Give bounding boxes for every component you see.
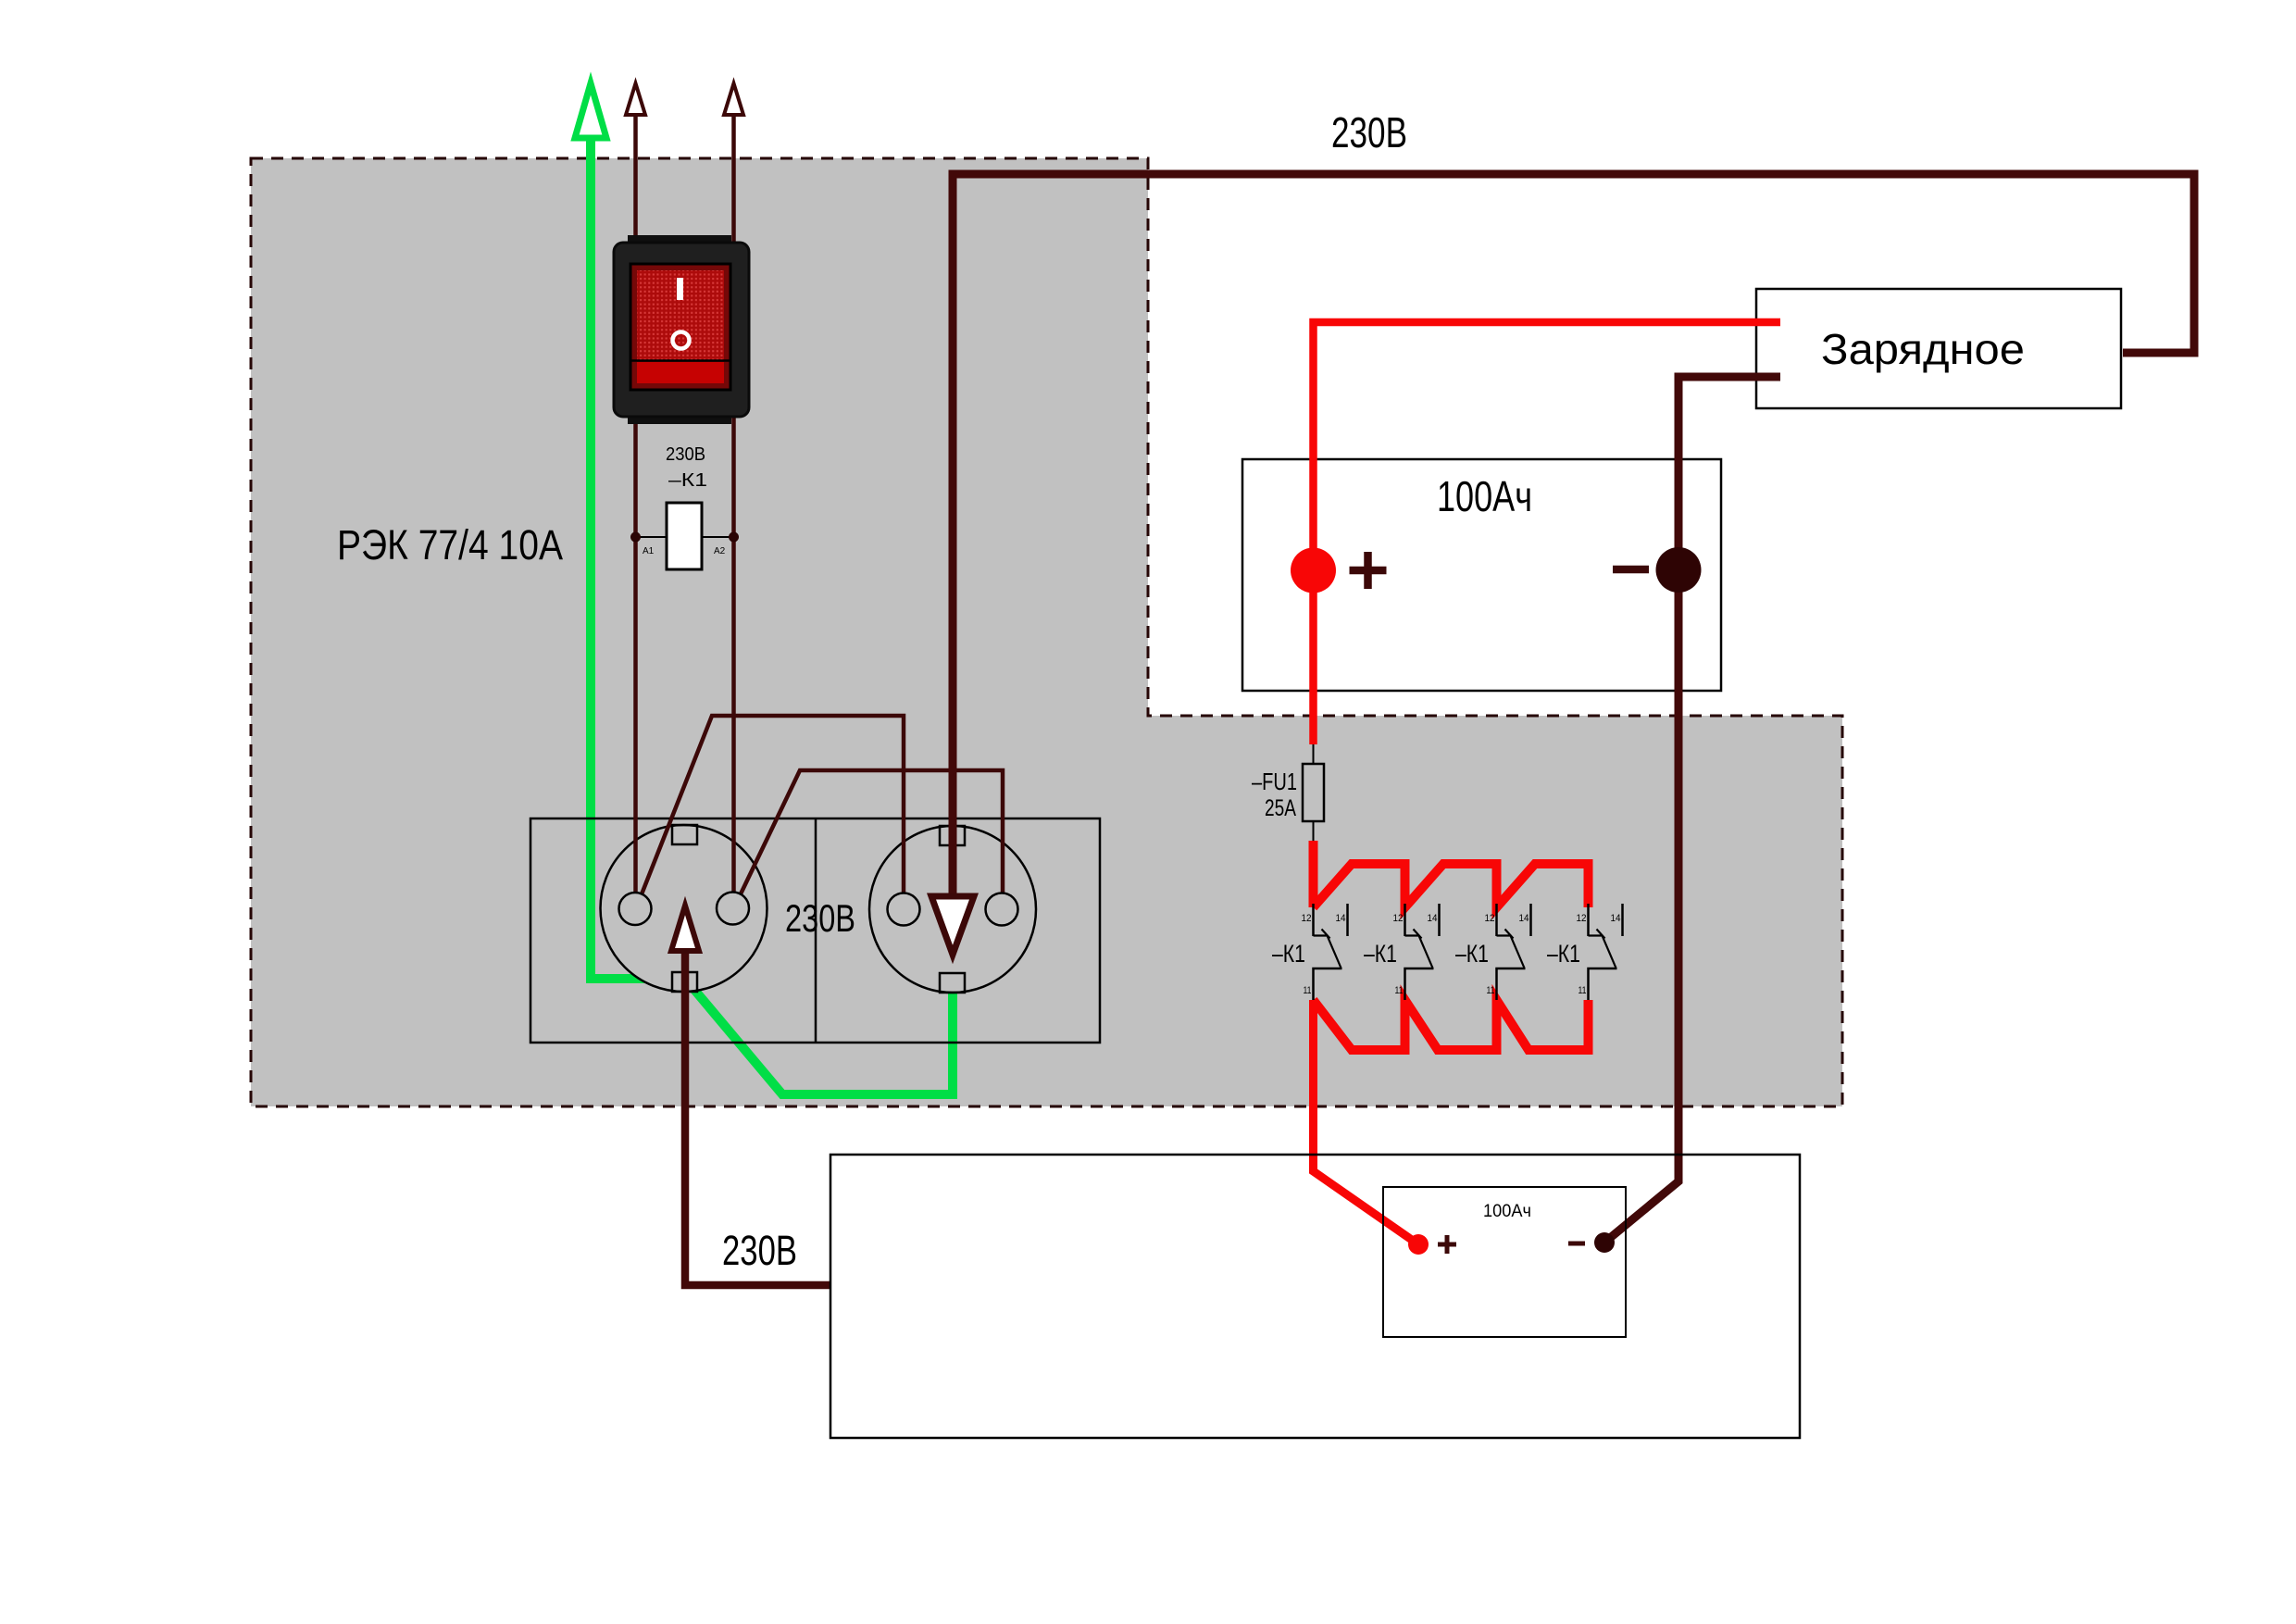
svg-text:РЭК 77/4 10А: РЭК 77/4 10А	[337, 521, 563, 568]
contact K1.1	[1272, 904, 1348, 1000]
switch S1 red rocker	[630, 264, 730, 390]
socket XS2 right pin	[986, 893, 1018, 926]
svg-text:230В: 230В	[785, 896, 855, 940]
switch S1 body	[614, 235, 749, 424]
wire switch right to socket1 right pin	[731, 417, 736, 903]
relay coil K1 label 230В	[666, 444, 707, 491]
wire red charger to battery +	[1314, 322, 1781, 744]
svg-text:11: 11	[1578, 985, 1587, 996]
svg-text:11: 11	[1304, 985, 1312, 996]
switch S1 I/O marks	[673, 278, 690, 349]
contact K1.4	[1547, 904, 1623, 1000]
socket XS1 right pin	[717, 893, 749, 925]
inverter box (bottom)	[830, 1155, 1800, 1438]
label 230В top	[1331, 108, 1407, 156]
svg-text:12: 12	[1302, 913, 1312, 924]
charger box	[1756, 289, 2121, 408]
wire red fuse to contacts	[1309, 841, 1318, 907]
socket XS1 circle	[601, 825, 767, 992]
battery GB2 box	[1383, 1187, 1626, 1337]
arrow into socket XS2 (down)	[931, 896, 974, 955]
label 230В between sockets	[785, 896, 855, 940]
battery GB2 + terminal	[1408, 1234, 1456, 1255]
svg-text:12: 12	[1393, 913, 1404, 924]
junction dot A1	[630, 532, 655, 557]
wire green PE (shaft + bends, drawn under sockets)	[591, 134, 953, 1094]
battery GB1 box	[1242, 459, 1721, 691]
svg-text:100Ач: 100Ач	[1437, 472, 1532, 520]
socket XS2 left pin	[888, 893, 920, 926]
junction dot A2	[714, 532, 739, 557]
socket XS2 circle	[869, 826, 1036, 993]
wire red contacts to battery GB2 +	[1314, 1000, 1419, 1244]
fuse FU1	[1252, 744, 1324, 841]
wire crossover 1: socket1 left pin to socket2 left pin	[638, 716, 904, 904]
label 230В bottom	[722, 1227, 797, 1274]
svg-text:100Ач: 100Ач	[1483, 1202, 1531, 1221]
svg-text:–К1: –К1	[1547, 940, 1580, 968]
svg-text:230В: 230В	[1331, 108, 1407, 156]
svg-text:A1: A1	[643, 546, 655, 556]
socket XS1 left pin	[619, 893, 652, 925]
wire switch left to socket1 left pin	[633, 417, 638, 903]
svg-text:–К1: –К1	[668, 470, 707, 491]
svg-text:–FU1: –FU1	[1252, 768, 1297, 795]
enclosure box 1+2 (gray dashed L-shape)	[251, 158, 1842, 1106]
wire 230V thick feed (to charger loop)	[953, 174, 2194, 900]
svg-text:Зарядное: Зарядное	[1821, 325, 2025, 373]
contact K1.2	[1364, 904, 1440, 1000]
battery GB1 + terminal	[1291, 548, 1387, 593]
battery GB2 - terminal	[1568, 1232, 1615, 1253]
wire red bottom zigzag across contacts	[1314, 1000, 1589, 1050]
wire red top zigzag across contacts	[1314, 864, 1589, 907]
svg-text:–К1: –К1	[1364, 940, 1397, 968]
relay coil K1	[636, 503, 734, 569]
svg-text:25А: 25А	[1265, 795, 1296, 821]
battery GB1 - terminal	[1613, 547, 1702, 593]
svg-text:230В: 230В	[722, 1227, 797, 1274]
wire dark charger to battery -	[1604, 377, 1780, 1243]
svg-text:14: 14	[1611, 913, 1621, 924]
label РЭК 77/4 10А	[337, 521, 563, 568]
svg-text:A2: A2	[714, 546, 726, 556]
svg-text:14: 14	[1336, 913, 1346, 924]
svg-text:11: 11	[1395, 985, 1404, 996]
svg-text:14: 14	[1519, 913, 1529, 924]
socket plate XS1/XS2	[530, 818, 1100, 1043]
contact K1.3	[1455, 904, 1531, 1000]
wire crossover 2: socket1 right pin to socket2 right pin	[736, 770, 1003, 904]
green PE arrow	[575, 83, 606, 138]
svg-text:–К1: –К1	[1455, 940, 1489, 968]
svg-text:11: 11	[1487, 985, 1495, 996]
svg-text:14: 14	[1428, 913, 1438, 924]
svg-text:–К1: –К1	[1272, 940, 1305, 968]
wire N to switch (right, with arrow)	[724, 83, 743, 243]
wire L to switch (left, with arrow)	[626, 83, 645, 243]
svg-text:12: 12	[1577, 913, 1587, 924]
svg-text:230В: 230В	[666, 444, 705, 465]
wire from socket XS1 to inverter box (with up arrow)	[671, 906, 830, 1285]
svg-text:12: 12	[1485, 913, 1495, 924]
